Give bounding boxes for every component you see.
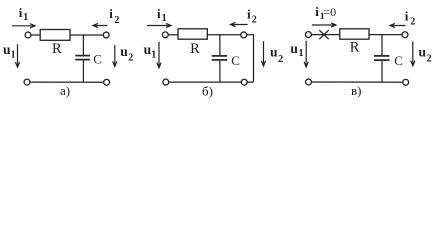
svg-text:i: i (247, 7, 251, 22)
svg-text:2: 2 (278, 54, 283, 65)
wire bottom (v) (311, 81, 402, 83)
resistor R (a) (40, 30, 70, 41)
svg-text:R: R (190, 41, 200, 57)
wire top-right (v) (369, 34, 402, 36)
svg-text:R: R (52, 41, 62, 57)
svg-text:а): а) (60, 83, 70, 98)
wire bottom (a) (30, 81, 104, 83)
svg-text:2: 2 (427, 54, 432, 65)
label i1 (a) (19, 5, 29, 23)
label i1=0 (v) (315, 4, 336, 22)
svg-text:i: i (19, 5, 23, 20)
terminal node top-right (a) (103, 32, 109, 38)
current arrow i2 (b) (231, 22, 248, 26)
svg-text:i: i (315, 4, 319, 19)
label u2 (b) (270, 45, 283, 65)
wire capacitor branch upper (b) (219, 35, 221, 55)
current arrow i1 (v) (312, 23, 336, 27)
capacitor C (v) (374, 56, 390, 60)
wire top-right (b) (207, 34, 253, 36)
wire capacitor branch upper (v) (381, 35, 383, 56)
svg-text:1: 1 (162, 13, 167, 24)
svg-text:C: C (231, 53, 240, 68)
svg-text:1: 1 (23, 12, 28, 23)
svg-text:u: u (290, 41, 298, 56)
wire capacitor branch lower (b) (219, 61, 221, 82)
voltage arrow u2 (b) (261, 41, 265, 66)
svg-text:1: 1 (299, 48, 304, 59)
svg-text:u: u (120, 44, 128, 59)
resistor R (v) (340, 29, 369, 39)
node on bottom wire (b) (241, 79, 247, 85)
svg-text:i: i (157, 6, 161, 21)
wire top-left (b) (168, 34, 178, 36)
capacitor C (b) (212, 56, 227, 60)
wire bottom (b) (169, 81, 254, 83)
terminal node bottom-left (a) (24, 79, 30, 85)
label u1 (a) (3, 42, 16, 61)
terminal node top-left (a) (25, 32, 31, 38)
wire top-left (v) (311, 34, 340, 36)
svg-text:i: i (405, 9, 409, 24)
wire capacitor branch lower (a) (82, 60, 84, 82)
svg-text:u: u (419, 45, 427, 60)
terminal node top-right (v) (402, 32, 408, 38)
label u2 (v) (419, 45, 432, 65)
svg-text:i: i (109, 6, 113, 21)
voltage arrow u2 (v) (411, 42, 415, 66)
wire capacitor branch lower (v) (381, 61, 383, 82)
label i1 (b) (157, 6, 167, 24)
voltage arrow u1 (v) (304, 41, 308, 67)
terminal node bottom-left (b) (163, 79, 169, 85)
label u1 (b) (144, 42, 157, 61)
label i2 (a) (109, 6, 119, 26)
svg-text:C: C (93, 52, 102, 67)
svg-text:б): б) (202, 84, 213, 99)
svg-text:2: 2 (252, 14, 257, 25)
wire right vertical short-circuit (b) (253, 34, 255, 82)
cross no-current mark (v) (319, 30, 328, 39)
svg-text:R: R (350, 40, 360, 56)
svg-text:2: 2 (114, 15, 119, 26)
svg-text:в): в) (351, 83, 361, 98)
terminal node bottom-left (v) (306, 79, 312, 85)
wire capacitor branch upper (a) (82, 35, 84, 55)
wire top-left (a) (31, 34, 40, 36)
svg-text:2: 2 (128, 53, 133, 64)
svg-text:1: 1 (11, 49, 16, 60)
current arrow i1 (a) (12, 24, 35, 28)
svg-text:1: 1 (151, 49, 156, 60)
label i2 (b) (247, 7, 257, 26)
current arrow i2 (a) (93, 23, 108, 27)
current arrow i1 (b) (147, 23, 171, 27)
voltage arrow u1 (a) (15, 44, 19, 67)
voltage arrow u1 (b) (157, 42, 161, 68)
current arrow i2 (v) (390, 23, 406, 27)
svg-text:2: 2 (410, 16, 415, 27)
svg-text:=0: =0 (323, 5, 336, 19)
svg-text:u: u (270, 45, 278, 60)
node on top wire (b) (241, 32, 247, 38)
label u1 (v) (290, 41, 303, 59)
terminal node top-left (b) (162, 32, 168, 38)
resistor R (b) (178, 29, 207, 39)
wire top-right (a) (70, 34, 103, 36)
terminal node bottom-right (v) (403, 79, 409, 85)
capacitor C (a) (75, 56, 90, 60)
terminal node bottom-right (a) (104, 79, 110, 85)
svg-text:C: C (394, 53, 403, 68)
voltage arrow u2 (a) (113, 45, 117, 67)
terminal node top-left (v) (305, 32, 311, 38)
label i2 (v) (405, 9, 416, 28)
label u2 (a) (120, 44, 133, 64)
